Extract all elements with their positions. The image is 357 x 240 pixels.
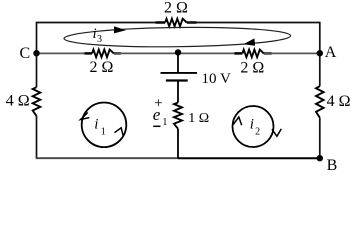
svg-text:e: e xyxy=(153,105,161,124)
resistor R mid-right 2ohm xyxy=(242,50,263,58)
label e1 with polarity xyxy=(153,96,168,128)
resistor R center 1ohm xyxy=(174,103,182,129)
loop i1 circle xyxy=(82,103,127,148)
svg-text:3: 3 xyxy=(97,34,102,45)
svg-text:A: A xyxy=(325,44,337,61)
svg-text:C: C xyxy=(20,45,31,62)
wire center branch upper xyxy=(177,53,179,73)
svg-text:1: 1 xyxy=(101,126,106,137)
svg-text:1 Ω: 1 Ω xyxy=(188,111,209,126)
resistor R left 4ohm xyxy=(33,87,41,116)
wire top: C corner to A corner xyxy=(37,22,320,24)
node C dot xyxy=(33,50,39,56)
resistor R right 4ohm xyxy=(316,86,324,118)
svg-text:4 Ω: 4 Ω xyxy=(6,93,30,110)
wire middle horizontal C to A xyxy=(37,52,320,54)
resistor R top 2ohm xyxy=(165,19,187,27)
svg-text:2 Ω: 2 Ω xyxy=(240,59,264,76)
resistor R mid-left 2ohm xyxy=(92,50,114,58)
wire center branch lower xyxy=(177,129,179,159)
node B dot xyxy=(317,155,323,161)
svg-text:2 Ω: 2 Ω xyxy=(90,59,114,76)
svg-text:2: 2 xyxy=(255,126,260,137)
loop i3 arrow left (bottom edge) xyxy=(243,38,255,45)
wire right vertical A-B branch xyxy=(319,22,321,159)
loop i2 arrowheads cw xyxy=(233,117,281,136)
svg-text:2 Ω: 2 Ω xyxy=(164,0,188,17)
svg-text:1: 1 xyxy=(162,117,167,128)
svg-text:10 V: 10 V xyxy=(202,71,231,87)
loop i3 arrow right (top edge) xyxy=(114,26,126,33)
wire bottom: left corner to B xyxy=(36,157,320,159)
loop i2 circle xyxy=(233,106,274,147)
svg-text:i: i xyxy=(94,117,98,133)
node A dot xyxy=(317,50,323,56)
wire left vertical C branch xyxy=(36,22,38,159)
svg-text:4 Ω: 4 Ω xyxy=(327,93,351,110)
wire center branch mid xyxy=(177,81,179,103)
loop i3 ellipse xyxy=(64,26,291,48)
svg-text:i: i xyxy=(250,117,254,133)
svg-text:B: B xyxy=(327,157,338,174)
battery V1 10V plates xyxy=(161,73,198,81)
loop i1 arrowheads ccw xyxy=(81,113,124,137)
node center-top junction dot xyxy=(175,49,181,55)
